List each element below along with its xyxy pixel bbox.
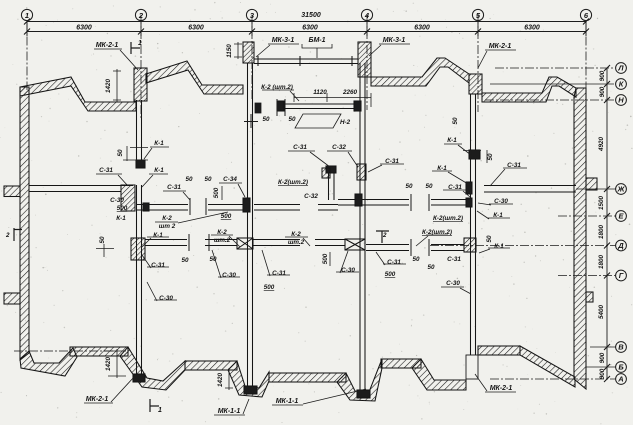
svg-text:5400: 5400: [598, 305, 605, 320]
svg-text:500: 500: [221, 213, 232, 220]
corner block row A right end: [121, 185, 135, 211]
svg-text:МК-2-1: МК-2-1: [96, 42, 119, 49]
svg-text:С-31: С-31: [167, 184, 181, 191]
wall: pier axis 2: [134, 68, 147, 101]
stub wall between rows x330: [329, 168, 335, 200]
wall: right exterior wall: [574, 88, 586, 389]
wall: row A right (to Zh tab): [484, 186, 576, 193]
dim 1420 bottom axis3: [225, 368, 233, 390]
svg-text:Л: Л: [617, 64, 624, 73]
beam row B segment 4: [318, 205, 338, 211]
axis line K: [490, 83, 614, 85]
wall: interior axis 5: [471, 94, 476, 150]
svg-text:К-1: К-1: [154, 140, 164, 147]
axis line Zh: [576, 188, 616, 190]
axis circle 3: [246, 9, 257, 20]
svg-text:К-1: К-1: [494, 243, 504, 250]
wall: bottom pocket axis 4: [337, 359, 382, 401]
svg-text:50: 50: [181, 257, 189, 264]
bowtie joint axis 4: [345, 239, 365, 250]
wall: row A left (corridor north, axis 1-2): [29, 186, 133, 192]
wall: interior axis 2: [137, 100, 142, 160]
wall: top band bay 5-6: [482, 77, 576, 102]
circle A: [616, 374, 627, 385]
svg-text:К-2: К-2: [217, 229, 227, 236]
tick pair on K-2 beam: [277, 99, 285, 116]
svg-text:С-31: С-31: [272, 270, 286, 277]
svg-text:500: 500: [264, 284, 275, 291]
svg-text:Н: Н: [618, 96, 624, 105]
svg-text:Ж: Ж: [617, 185, 626, 194]
leader MK-3-1 left: [256, 44, 299, 57]
dim 500 vert at 222: [221, 186, 223, 200]
junction blocks: [357, 164, 366, 180]
BM-1 bracket: [302, 44, 332, 58]
dim line 6300 row: [27, 31, 586, 33]
svg-text:С-31: С-31: [151, 262, 165, 269]
svg-text:50: 50: [405, 183, 413, 190]
svg-text:МК-1-1: МК-1-1: [218, 408, 241, 415]
section mark 1 bottom: [150, 399, 159, 412]
axis circle 6: [580, 9, 591, 20]
circle K: [616, 79, 627, 90]
wall: left exterior wall: [20, 87, 29, 360]
dim 50 axis5: [463, 150, 487, 163]
dim 1420 bottom axis2: [104, 349, 126, 378]
T2 symbol: [376, 231, 389, 243]
svg-text:К-2: К-2: [291, 231, 301, 238]
circle E: [616, 211, 627, 222]
svg-text:2: 2: [138, 11, 144, 20]
svg-text:500: 500: [117, 205, 128, 212]
svg-text:К-1: К-1: [154, 167, 164, 174]
wall: interior axis 4: [360, 63, 365, 390]
svg-text:С-30: С-30: [159, 295, 173, 302]
svg-text:1120: 1120: [313, 89, 327, 96]
wall: bottom pocket axis 5: [412, 359, 466, 390]
svg-text:1800: 1800: [598, 225, 605, 240]
leader K-1 axis2: [144, 147, 169, 159]
svg-text:6300: 6300: [414, 25, 430, 32]
svg-text:50: 50: [262, 116, 270, 123]
svg-text:МК-2-1: МК-2-1: [86, 396, 109, 403]
tick pairs row B right gap: [411, 194, 429, 211]
axis line B2: [586, 366, 616, 368]
beam K-2 top bay 3-4: [282, 104, 361, 109]
svg-text:К-2(шт.2): К-2(шт.2): [278, 179, 308, 186]
wall: pier axis 5: [469, 74, 482, 94]
leader K-2 sht2 bay3-4: [262, 90, 299, 101]
wall: bottom-right slope to corner: [520, 346, 575, 387]
axis line A: [490, 378, 616, 380]
svg-text:А: А: [617, 375, 623, 384]
svg-text:С-31: С-31: [387, 259, 401, 266]
leader MK-2-1 bottom left: [84, 377, 134, 403]
svg-text:6300: 6300: [302, 25, 318, 32]
svg-text:С-34: С-34: [223, 176, 237, 183]
circle B: [616, 362, 627, 373]
circle V: [616, 342, 627, 353]
circle D: [616, 240, 627, 251]
tick pairs row C gaps: [189, 234, 209, 251]
svg-text:К-1: К-1: [447, 137, 457, 144]
svg-text:900: 900: [599, 86, 606, 97]
wall: top band bay 4-5: [371, 58, 469, 86]
slash ticks row1: [24, 19, 589, 35]
svg-text:Г: Г: [619, 271, 624, 280]
circle N: [616, 95, 627, 106]
svg-text:4920: 4920: [598, 137, 605, 153]
beam row C segment 2: [205, 240, 237, 246]
svg-text:шт.2: шт.2: [214, 237, 231, 244]
svg-text:С-30: С-30: [341, 267, 355, 274]
wall: left tab lower: [4, 293, 20, 304]
svg-text:6300: 6300: [524, 25, 540, 32]
svg-text:1: 1: [25, 11, 29, 20]
svg-text:50: 50: [209, 256, 217, 263]
leader MK-1-1 #2: [272, 389, 366, 405]
svg-text:6300: 6300: [188, 25, 204, 32]
beam BM-1 top chord: [254, 59, 358, 64]
svg-text:50: 50: [487, 153, 494, 161]
corner block row C left: [131, 238, 145, 260]
beam row C segment 3: [253, 240, 300, 246]
svg-text:1500: 1500: [598, 196, 605, 211]
svg-text:Б: Б: [618, 363, 624, 372]
svg-text:С-31: С-31: [385, 158, 399, 165]
axis dash-dot lines down: [27, 15, 586, 120]
svg-text:1420: 1420: [105, 79, 112, 94]
svg-text:С-30: С-30: [494, 198, 508, 205]
svg-text:МК-1-1: МК-1-1: [276, 398, 299, 405]
tick pairs row B gap1: [190, 198, 206, 215]
wall: interior axis 3: [248, 63, 253, 386]
slash ticks row2: [24, 29, 589, 35]
svg-text:С-30: С-30: [222, 272, 236, 279]
svg-text:50: 50: [185, 176, 193, 183]
svg-text:В: В: [618, 343, 624, 352]
parallelogram H-2: [295, 114, 341, 128]
svg-text:900: 900: [599, 368, 606, 379]
svg-text:Н-2: Н-2: [340, 119, 351, 126]
svg-text:БМ-1: БМ-1: [308, 37, 325, 44]
ticks on right dim line: [604, 65, 610, 382]
svg-text:Д: Д: [617, 241, 624, 250]
svg-text:1420: 1420: [105, 357, 112, 372]
svg-text:900: 900: [599, 352, 606, 363]
axis extension lines: [26, 22, 28, 37]
svg-text:500: 500: [385, 271, 396, 278]
section mark 1 top: [131, 42, 140, 54]
svg-text:МК-2-1: МК-2-1: [490, 385, 513, 392]
svg-text:шт 2: шт 2: [159, 223, 176, 230]
svg-text:50: 50: [452, 117, 459, 125]
dim 50 axis2: [123, 146, 148, 161]
svg-text:С-31: С-31: [447, 256, 461, 263]
beam row B segment 2: [208, 205, 247, 211]
svg-text:С-31: С-31: [448, 184, 462, 191]
dim line 31500: [27, 21, 586, 23]
axis circle 1: [21, 9, 32, 20]
svg-text:50: 50: [99, 236, 106, 244]
svg-text:50: 50: [412, 256, 420, 263]
leader MK-1-1 #1: [214, 399, 249, 415]
svg-text:50: 50: [486, 235, 493, 243]
circle Zh: [616, 184, 627, 195]
beam row C segment 4: [315, 240, 345, 246]
axis circle 4: [361, 9, 372, 20]
beam row B segment 3: [254, 205, 300, 211]
dim 500 rot near 327: [329, 252, 331, 266]
leader MK-2-1 left: [94, 49, 138, 70]
svg-text:500: 500: [213, 187, 220, 198]
svg-text:1150: 1150: [226, 44, 233, 58]
svg-text:С-30: С-30: [446, 280, 460, 287]
axis line V: [590, 346, 616, 348]
wall: bottom band bay 2-3: [185, 361, 237, 370]
svg-text:К-1: К-1: [437, 165, 447, 172]
svg-text:С-32: С-32: [304, 193, 318, 200]
svg-text:31500: 31500: [301, 12, 321, 19]
axis circle 5: [472, 9, 483, 20]
circle G: [616, 270, 627, 281]
beam row B right segment 1: [338, 200, 409, 206]
svg-text:50: 50: [204, 176, 212, 183]
svg-text:6300: 6300: [76, 25, 92, 32]
dim K-2 beam: 1120 2260: [294, 93, 371, 107]
axis line G: [558, 275, 616, 277]
svg-text:шт.2: шт.2: [288, 239, 305, 246]
leaders right middle cluster: [432, 171, 468, 184]
wall: bottom pocket axis 3: [228, 361, 269, 397]
wall: top band bay 2-3: [146, 61, 243, 94]
wall: right tab upper (axis Zh): [586, 178, 597, 190]
svg-text:1800: 1800: [598, 255, 605, 270]
leader MK-3-1 right: [369, 44, 410, 56]
stub block axis-3 at K-2 beam: [255, 103, 261, 113]
svg-text:С-31: С-31: [293, 144, 307, 151]
svg-text:50: 50: [288, 116, 296, 123]
wall: pier axis 4: [358, 42, 371, 77]
svg-text:С-30: С-30: [110, 197, 124, 204]
wall: pier axis 3: [243, 42, 254, 63]
beam row C segment 6: [431, 245, 464, 251]
svg-text:К-2 (шт.2): К-2 (шт.2): [261, 84, 293, 91]
beam row C segment 5: [366, 245, 409, 251]
svg-text:К-2: К-2: [162, 215, 172, 222]
svg-text:2260: 2260: [342, 89, 358, 96]
wall: right tab lower: [586, 292, 593, 302]
svg-text:МК-3-1: МК-3-1: [272, 37, 295, 44]
wall: bottom band bay 4-5: [381, 359, 421, 368]
svg-text:С-31: С-31: [99, 167, 113, 174]
leader K-1 axis5 top: [444, 144, 471, 155]
axis line L: [495, 67, 614, 69]
svg-text:МК-2-1: МК-2-1: [489, 43, 512, 50]
circle L: [616, 63, 627, 74]
svg-text:1420: 1420: [217, 373, 224, 388]
left section 2 symbol: [14, 228, 22, 241]
svg-text:900: 900: [599, 70, 606, 81]
axis line N: [485, 99, 614, 101]
leader MK-2-1 right: [478, 50, 516, 68]
dim 50 rot left: [96, 244, 114, 257]
wall: bottom band bay 1-2: [70, 347, 128, 356]
vertical dim line right: [606, 68, 608, 379]
svg-text:4: 4: [364, 11, 370, 20]
svg-text:1: 1: [158, 407, 162, 414]
beam row B right segment 2: [431, 200, 470, 206]
dim 1150 line: [234, 42, 242, 59]
wall: bottom band bay 3-4: [269, 373, 346, 382]
axis line D: [430, 245, 616, 247]
svg-text:К-2(шт.2): К-2(шт.2): [422, 229, 452, 236]
beam row B segment 1: [137, 205, 188, 211]
svg-text:50: 50: [425, 183, 433, 190]
svg-text:К-2(шт.2): К-2(шт.2): [433, 215, 463, 222]
svg-text:2: 2: [5, 232, 10, 239]
leaders K cluster axis4 top: [288, 151, 330, 167]
wall: left tab upper: [4, 186, 20, 197]
wall: bottom pocket axis 2: [120, 347, 185, 390]
svg-text:К-1: К-1: [493, 212, 503, 219]
svg-text:500: 500: [322, 253, 329, 264]
bowtie joint axis 3: [237, 238, 253, 249]
wall: bottom-left pocket: [20, 348, 77, 376]
axis line E: [558, 215, 616, 217]
svg-text:2: 2: [382, 232, 387, 239]
svg-text:С-32: С-32: [332, 144, 346, 151]
dim 1420 axis2 top: [113, 69, 121, 102]
wall: bottom band bay 5-6: [478, 346, 520, 355]
axis circle 2: [135, 9, 146, 20]
wall: top band bay 1-2: [20, 77, 136, 111]
svg-text:50: 50: [117, 149, 124, 157]
beam row C segment 1: [145, 240, 187, 246]
svg-text:1: 1: [138, 40, 142, 47]
svg-text:К-1: К-1: [116, 215, 126, 222]
svg-text:50: 50: [427, 264, 435, 271]
svg-text:МК-3-1: МК-3-1: [383, 37, 406, 44]
svg-text:К-1: К-1: [153, 232, 163, 239]
svg-text:С-31: С-31: [507, 162, 521, 169]
leader MK-2-1 bottom right: [475, 374, 516, 392]
leaders lower row: [142, 237, 169, 247]
leaders C-3x lower labels: [142, 255, 169, 268]
leaders upper row left cluster: [96, 174, 128, 186]
